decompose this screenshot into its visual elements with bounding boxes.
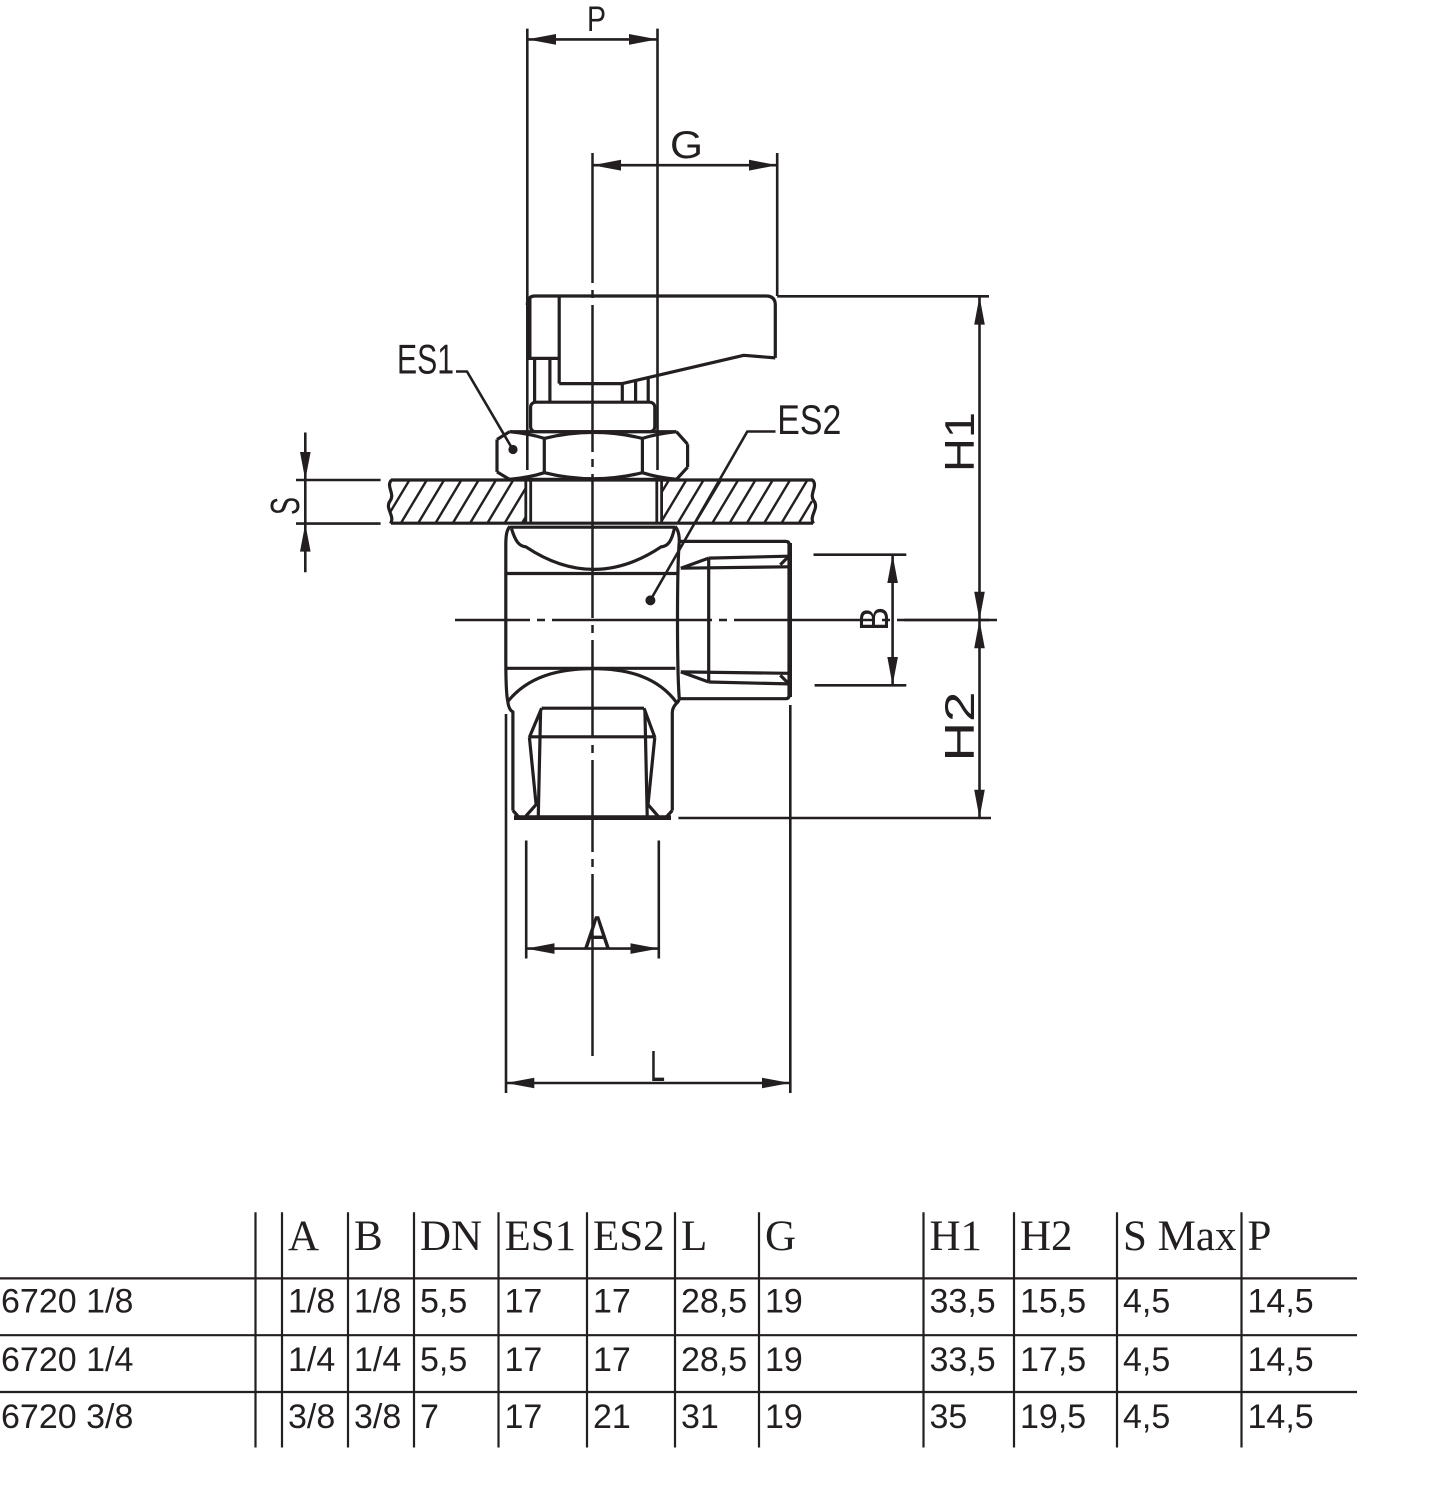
table grid bbox=[0, 1212, 1357, 1447]
svg-text:4,5: 4,5 bbox=[1123, 1283, 1170, 1321]
svg-text:17: 17 bbox=[593, 1341, 631, 1379]
dimension B bbox=[814, 555, 907, 686]
svg-text:1/4: 1/4 bbox=[288, 1341, 335, 1379]
svg-text:15,5: 15,5 bbox=[1020, 1283, 1086, 1321]
svg-text:17: 17 bbox=[505, 1283, 543, 1321]
svg-text:5,5: 5,5 bbox=[420, 1283, 467, 1321]
svg-text:4,5: 4,5 bbox=[1123, 1341, 1170, 1379]
svg-text:6720 1/8: 6720 1/8 bbox=[1, 1283, 133, 1321]
svg-text:ES2: ES2 bbox=[593, 1213, 665, 1260]
svg-text:H2: H2 bbox=[1020, 1213, 1073, 1260]
svg-text:1/4: 1/4 bbox=[354, 1341, 401, 1379]
svg-text:P: P bbox=[1248, 1213, 1272, 1260]
svg-text:6720 1/4: 6720 1/4 bbox=[1, 1341, 133, 1379]
svg-text:17: 17 bbox=[505, 1398, 543, 1436]
valve handle lever bbox=[527, 296, 775, 432]
svg-text:19,5: 19,5 bbox=[1020, 1398, 1086, 1436]
hex nut ES1 bbox=[497, 432, 688, 480]
centerline vertical bbox=[591, 153, 594, 283]
svg-text:33,5: 33,5 bbox=[930, 1341, 996, 1379]
svg-text:14,5: 14,5 bbox=[1248, 1283, 1314, 1321]
svg-text:3/8: 3/8 bbox=[288, 1398, 335, 1436]
svg-text:ES1: ES1 bbox=[505, 1213, 577, 1260]
dimension S bbox=[296, 433, 381, 573]
dimension A bbox=[526, 841, 659, 959]
valve body bbox=[506, 526, 680, 810]
leader ES1 bbox=[456, 372, 513, 450]
svg-text:17,5: 17,5 bbox=[1020, 1341, 1086, 1379]
side port outlet bbox=[680, 541, 790, 698]
svg-text:ES2: ES2 bbox=[777, 396, 841, 443]
gland collar bbox=[531, 402, 655, 432]
mounting panel bbox=[391, 480, 813, 524]
svg-text:33,5: 33,5 bbox=[930, 1283, 996, 1321]
svg-text:B: B bbox=[354, 1213, 383, 1260]
svg-text:31: 31 bbox=[681, 1398, 719, 1436]
svg-text:14,5: 14,5 bbox=[1248, 1341, 1314, 1379]
svg-text:35: 35 bbox=[930, 1398, 968, 1436]
threaded neck through panel bbox=[526, 480, 662, 524]
dimension H1 bbox=[777, 296, 989, 620]
svg-text:P: P bbox=[587, 0, 606, 39]
svg-text:28,5: 28,5 bbox=[681, 1283, 747, 1321]
svg-text:1/8: 1/8 bbox=[288, 1283, 335, 1321]
svg-text:S Max: S Max bbox=[1123, 1213, 1236, 1260]
leader ES2 bbox=[651, 432, 776, 601]
svg-text:21: 21 bbox=[593, 1398, 631, 1436]
centerline horizontal bbox=[455, 619, 530, 622]
svg-text:19: 19 bbox=[765, 1341, 803, 1379]
svg-text:S: S bbox=[262, 497, 308, 515]
svg-text:G: G bbox=[765, 1213, 796, 1260]
svg-text:A: A bbox=[584, 907, 610, 959]
svg-text:7: 7 bbox=[420, 1398, 439, 1436]
svg-text:A: A bbox=[288, 1213, 319, 1260]
svg-text:H2: H2 bbox=[936, 692, 983, 762]
svg-text:5,5: 5,5 bbox=[420, 1341, 467, 1379]
svg-text:6720 3/8: 6720 3/8 bbox=[1, 1398, 133, 1436]
dimension G bbox=[593, 153, 778, 296]
dimension L bbox=[506, 705, 790, 1093]
svg-text:L: L bbox=[650, 1042, 665, 1091]
svg-text:ES1: ES1 bbox=[397, 336, 454, 383]
svg-text:17: 17 bbox=[593, 1283, 631, 1321]
svg-text:1/8: 1/8 bbox=[354, 1283, 401, 1321]
svg-text:3/8: 3/8 bbox=[354, 1398, 401, 1436]
svg-text:19: 19 bbox=[765, 1398, 803, 1436]
svg-text:G: G bbox=[670, 124, 703, 167]
svg-text:L: L bbox=[681, 1213, 707, 1260]
svg-text:H1: H1 bbox=[936, 412, 983, 472]
svg-text:H1: H1 bbox=[930, 1213, 983, 1260]
dimension P bbox=[527, 29, 657, 470]
svg-text:28,5: 28,5 bbox=[681, 1341, 747, 1379]
svg-text:17: 17 bbox=[505, 1341, 543, 1379]
bottom port bbox=[513, 708, 672, 818]
dimension H2 bbox=[678, 620, 991, 818]
svg-text:DN: DN bbox=[420, 1213, 482, 1260]
svg-text:14,5: 14,5 bbox=[1248, 1398, 1314, 1436]
handle stem splines bbox=[533, 358, 536, 402]
svg-text:4,5: 4,5 bbox=[1123, 1398, 1170, 1436]
svg-text:B: B bbox=[851, 607, 897, 631]
svg-text:19: 19 bbox=[765, 1283, 803, 1321]
